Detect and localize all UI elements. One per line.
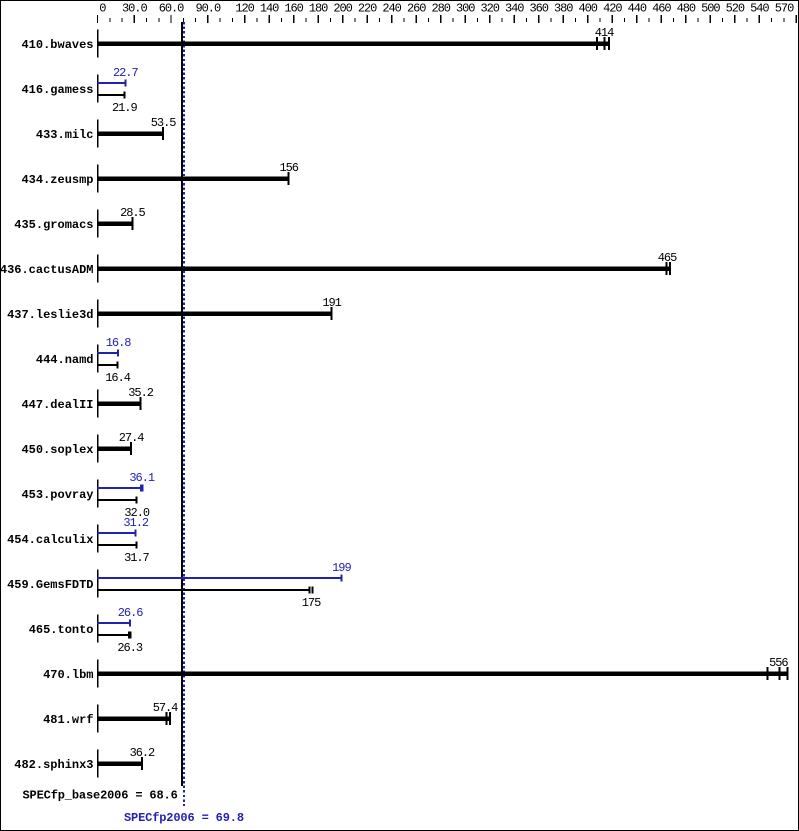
svg-text:120: 120 <box>235 2 254 16</box>
row 410.bwaves: axis baseline <box>97 30 99 58</box>
svg-text:480: 480 <box>677 2 696 16</box>
svg-text:444.namd: 444.namd <box>36 353 94 367</box>
row 453.povray: base run marker tick <box>136 497 138 504</box>
row 437.leslie3d: axis baseline <box>97 300 99 328</box>
row 447.dealII: run marker tick <box>140 397 142 410</box>
svg-text:436.cactusADM: 436.cactusADM <box>0 263 94 277</box>
svg-text:556: 556 <box>769 656 788 670</box>
svg-text:SPECfp2006 = 69.8: SPECfp2006 = 69.8 <box>124 811 244 825</box>
row 437.leslie3d: base bar (191) <box>97 312 332 316</box>
svg-text:160: 160 <box>284 2 303 16</box>
row 454.calculix: axis baseline <box>97 525 99 553</box>
row 444.namd: axis baseline <box>97 345 99 373</box>
row 436.cactusADM: axis baseline <box>97 255 99 283</box>
row 481.wrf: base bar (57.4) <box>97 717 171 721</box>
svg-text:36.2: 36.2 <box>130 746 155 760</box>
row 410.bwaves: run marker tick <box>596 37 598 50</box>
row 416.gamess: peak run marker tick <box>124 80 126 87</box>
row 481.wrf: run marker tick <box>169 712 171 725</box>
svg-text:35.2: 35.2 <box>128 386 153 400</box>
row 436.cactusADM: run marker tick <box>669 262 671 275</box>
row 450.soplex: base bar (27.4) <box>97 447 131 451</box>
svg-text:340: 340 <box>505 2 524 16</box>
row 434.zeusmp: base bar (156) <box>97 177 289 181</box>
row 459.GemsFDTD: base bar (175) <box>97 589 310 591</box>
svg-text:500: 500 <box>701 2 720 16</box>
row 465.tonto: base bar (26.3) <box>97 634 130 636</box>
svg-text:26.6: 26.6 <box>118 606 143 620</box>
svg-text:16.8: 16.8 <box>106 336 131 350</box>
SPECfp_base2006 mean reference line (68.6) <box>181 22 183 786</box>
row 450.soplex: axis baseline <box>97 435 99 463</box>
svg-text:454.calculix: 454.calculix <box>7 533 93 547</box>
svg-text:300: 300 <box>456 2 475 16</box>
svg-text:435.gromacs: 435.gromacs <box>14 218 93 232</box>
row 447.dealII: base bar (35.2) <box>97 402 141 406</box>
row 444.namd: base run marker tick <box>117 362 119 369</box>
svg-text:433.milc: 433.milc <box>36 128 94 142</box>
row 435.gromacs: axis baseline <box>97 210 99 238</box>
svg-text:437.leslie3d: 437.leslie3d <box>7 308 93 322</box>
row 481.wrf: axis baseline <box>97 705 99 733</box>
SPECfp2006 peak mean reference line, blue dotted (69.8) <box>183 22 185 806</box>
row 434.zeusmp: run marker tick <box>288 172 290 185</box>
svg-text:31.7: 31.7 <box>124 551 149 565</box>
row 416.gamess: peak bar (22.7), blue <box>97 82 125 84</box>
svg-text:191: 191 <box>322 296 341 310</box>
svg-text:320: 320 <box>480 2 499 16</box>
svg-text:410.bwaves: 410.bwaves <box>21 38 93 52</box>
row 482.sphinx3: base bar (36.2) <box>97 762 142 766</box>
svg-text:26.3: 26.3 <box>117 641 142 655</box>
svg-text:21.9: 21.9 <box>112 101 137 115</box>
row 434.zeusmp: axis baseline <box>97 165 99 193</box>
row 416.gamess: axis baseline <box>97 75 99 103</box>
row 454.calculix: base run marker tick <box>135 542 137 549</box>
row 447.dealII: axis baseline <box>97 390 99 418</box>
row 433.milc: axis baseline <box>97 120 99 148</box>
svg-text:434.zeusmp: 434.zeusmp <box>21 173 93 187</box>
svg-text:260: 260 <box>407 2 426 16</box>
row 459.GemsFDTD: peak run marker tick <box>340 575 342 582</box>
svg-text:420: 420 <box>603 2 622 16</box>
row 444.namd: peak run marker tick <box>117 350 119 357</box>
svg-text:180: 180 <box>309 2 328 16</box>
svg-text:570: 570 <box>775 2 794 16</box>
svg-text:36.1: 36.1 <box>129 471 154 485</box>
svg-text:400: 400 <box>578 2 597 16</box>
svg-text:540: 540 <box>750 2 769 16</box>
row 482.sphinx3: axis baseline <box>97 750 99 778</box>
row 436.cactusADM: base bar (465) <box>97 267 671 271</box>
row 459.GemsFDTD: peak bar (199), blue <box>97 577 341 579</box>
row 435.gromacs: run marker tick <box>131 217 133 230</box>
svg-text:481.wrf: 481.wrf <box>43 713 93 727</box>
row 454.calculix: peak run marker tick <box>135 530 137 537</box>
svg-text:460: 460 <box>652 2 671 16</box>
svg-text:520: 520 <box>726 2 745 16</box>
svg-text:465: 465 <box>658 251 677 265</box>
svg-text:447.dealII: 447.dealII <box>21 398 93 412</box>
row 459.GemsFDTD: base run marker tick <box>312 587 314 594</box>
svg-text:440: 440 <box>628 2 647 16</box>
svg-text:220: 220 <box>358 2 377 16</box>
svg-text:416.gamess: 416.gamess <box>21 83 93 97</box>
axis major ticks <box>97 15 797 23</box>
row 444.namd: base bar (16.4) <box>97 364 118 366</box>
row 465.tonto: base run marker tick <box>128 632 131 639</box>
svg-text:16.4: 16.4 <box>105 371 130 385</box>
row 470.lbm: axis baseline <box>97 660 99 688</box>
row 410.bwaves: run marker tick <box>608 37 610 50</box>
row 470.lbm: run marker tick <box>778 667 780 680</box>
row 453.povray: base bar (32.0) <box>97 499 137 501</box>
svg-text:22.7: 22.7 <box>113 66 138 80</box>
svg-text:200: 200 <box>333 2 352 16</box>
svg-text:60.0: 60.0 <box>159 2 184 16</box>
svg-text:380: 380 <box>554 2 573 16</box>
row 470.lbm: base bar (556) <box>97 672 788 676</box>
row 453.povray: axis baseline <box>97 480 99 508</box>
row 444.namd: peak bar (16.8), blue <box>97 352 118 354</box>
svg-text:156: 156 <box>279 161 298 175</box>
row 410.bwaves: run marker tick <box>603 37 605 50</box>
row 465.tonto: peak run marker tick <box>129 620 131 627</box>
row 433.milc: run marker tick <box>162 127 164 140</box>
row 459.GemsFDTD: base run marker tick <box>308 587 310 594</box>
row 465.tonto: axis baseline <box>97 615 99 643</box>
svg-text:90.0: 90.0 <box>195 2 220 16</box>
svg-text:470.lbm: 470.lbm <box>43 668 93 682</box>
row 437.leslie3d: run marker tick <box>331 307 333 320</box>
row 470.lbm: run marker tick <box>786 667 788 680</box>
svg-text:414: 414 <box>595 26 614 40</box>
row 416.gamess: base run marker tick <box>123 92 125 99</box>
row 459.GemsFDTD: axis baseline <box>97 570 99 598</box>
svg-text:459.GemsFDTD: 459.GemsFDTD <box>7 578 93 592</box>
svg-text:30.0: 30.0 <box>122 2 147 16</box>
svg-text:27.4: 27.4 <box>119 431 144 445</box>
svg-text:140: 140 <box>260 2 279 16</box>
row 481.wrf: run marker tick <box>166 712 168 725</box>
svg-text:453.povray: 453.povray <box>21 488 93 502</box>
row 450.soplex: run marker tick <box>130 442 132 455</box>
row 465.tonto: peak bar (26.6), blue <box>97 622 130 624</box>
row 416.gamess: base bar (21.9) <box>97 94 124 96</box>
row 410.bwaves: base bar (414) <box>97 42 610 46</box>
row 454.calculix: base bar (31.7) <box>97 544 136 546</box>
row 482.sphinx3: run marker tick <box>141 757 143 770</box>
svg-text:53.5: 53.5 <box>151 116 176 130</box>
axis minor ticks <box>109 18 784 22</box>
svg-text:450.soplex: 450.soplex <box>21 443 93 457</box>
svg-text:240: 240 <box>382 2 401 16</box>
svg-text:199: 199 <box>332 561 351 575</box>
svg-text:465.tonto: 465.tonto <box>29 623 94 637</box>
row 470.lbm: run marker tick <box>767 667 769 680</box>
row 435.gromacs: base bar (28.5) <box>97 222 132 226</box>
row 454.calculix: peak bar (31.2), blue <box>97 532 136 534</box>
axis tick labels <box>99 2 794 16</box>
svg-text:31.2: 31.2 <box>123 516 148 530</box>
svg-text:28.5: 28.5 <box>120 206 145 220</box>
svg-text:482.sphinx3: 482.sphinx3 <box>14 758 93 772</box>
svg-text:360: 360 <box>529 2 548 16</box>
svg-text:SPECfp_base2006 = 68.6: SPECfp_base2006 = 68.6 <box>23 789 178 803</box>
svg-text:0: 0 <box>99 2 106 16</box>
svg-text:280: 280 <box>431 2 450 16</box>
row 453.povray: peak bar (36.1), blue <box>97 487 142 489</box>
row 453.povray: peak run marker tick <box>140 485 143 492</box>
row 433.milc: base bar (53.5) <box>97 132 163 136</box>
row 436.cactusADM: run marker tick <box>666 262 668 275</box>
svg-text:175: 175 <box>302 596 321 610</box>
svg-text:57.4: 57.4 <box>153 701 178 715</box>
